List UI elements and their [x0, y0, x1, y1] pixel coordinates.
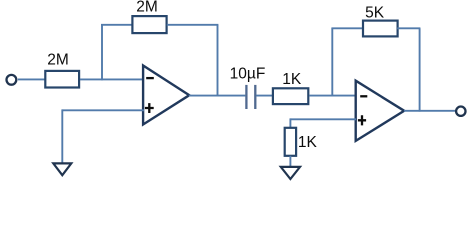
- input terminal IN: [6, 75, 16, 85]
- op-amp U1: [143, 66, 189, 125]
- wire: feedback 2 top left segment: [331, 27, 363, 29]
- wire: U1 non-inverting input: [62, 109, 144, 111]
- wire: U2 + node down to R5: [289, 118, 291, 128]
- svg-text:1K: 1K: [298, 134, 318, 151]
- capacitor C1 left plate: [245, 85, 247, 109]
- U1 minus sign: [146, 77, 154, 79]
- svg-text:5K: 5K: [365, 4, 385, 21]
- svg-text:2M: 2M: [47, 52, 69, 69]
- U2 minus sign: [360, 95, 367, 97]
- wire: feedback 1 top left segment: [101, 24, 132, 26]
- resistor R2 2M (feedback stage 1): [132, 16, 166, 33]
- op-amp U2: [356, 81, 405, 141]
- U1 plus sign: [145, 103, 154, 113]
- wire: U2 output to output terminal: [404, 110, 455, 112]
- wire: feedback 1 right vertical: [217, 25, 219, 97]
- wire: R1 to U1 inverting input: [80, 78, 144, 80]
- wire: input terminal to R1: [18, 78, 45, 80]
- resistor R5 1K (to ground): [285, 128, 296, 156]
- resistor R4 5K (feedback stage 2): [363, 21, 398, 37]
- svg-text:1K: 1K: [282, 71, 302, 88]
- U2 plus sign: [358, 115, 366, 125]
- wire: R3 to U2 inverting input: [309, 95, 357, 97]
- wire: feedback 2 right vertical: [419, 28, 421, 111]
- wire: U1 + input down to ground: [61, 109, 63, 163]
- resistor R1 2M (series input): [45, 71, 79, 88]
- wire: feedback 2 left vertical: [331, 28, 333, 96]
- wire: U1 output to C1: [189, 95, 246, 97]
- wire: R5 to ground: [289, 156, 291, 167]
- output terminal OUT: [456, 107, 465, 116]
- wire: feedback 2 top right segment: [397, 27, 420, 29]
- ground (stage 2): [281, 167, 300, 179]
- wire: feedback 1 top right segment: [167, 24, 219, 26]
- wire: C1 to R3: [256, 95, 273, 97]
- ground (stage 1): [53, 163, 71, 175]
- resistor R3 1K (series stage 2): [273, 88, 308, 104]
- svg-text:2M: 2M: [136, 0, 158, 15]
- capacitor C1 right plate: [254, 85, 256, 109]
- svg-text:10µF: 10µF: [230, 66, 266, 83]
- wire: U2 non-inverting input: [290, 118, 356, 120]
- wire: feedback 1 left vertical (node at R1 output): [101, 25, 103, 81]
